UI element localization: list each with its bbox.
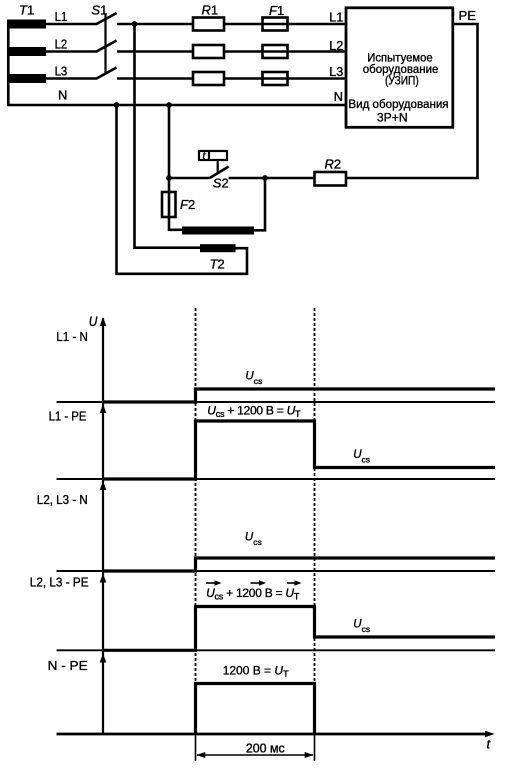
wire L2 from S1 to R1 (117, 50, 193, 53)
svg-text:S1: S1 (91, 2, 107, 17)
axis arrowhead row L1-PE (100, 404, 107, 413)
wire L3 from T1 to S1 (46, 77, 97, 80)
extension line t1 below axis (195, 734, 197, 762)
wire N down through F2 to T2 primary (169, 105, 182, 230)
trace L1-PE baseline (thin full width) (57, 478, 496, 480)
axis U (vertical) (102, 318, 104, 734)
trace L1-N baseline (thin full width) (57, 401, 496, 403)
trace L2,L3-PE baseline (thin full width) (57, 649, 496, 651)
dashed line t1 (195, 308, 197, 734)
wire T2 primary to S2 output node (254, 178, 265, 230)
wire L3 from R1 to EUT (through F1) (224, 77, 346, 80)
svg-text:L1 - PE: L1 - PE (49, 409, 87, 424)
dimension 200 ms line (197, 754, 313, 756)
wire T2 secondary left end up to L1 (135, 24, 201, 248)
vector arrow over UT (287, 580, 302, 585)
svg-text:L3: L3 (329, 64, 343, 79)
resistor R1 (L1 phase) (193, 18, 224, 31)
wire L1 from T1 to S1 (46, 23, 97, 26)
svg-text:Вид оборудования: Вид оборудования (348, 97, 448, 111)
svg-text:R2: R2 (325, 157, 342, 172)
vector arrow over 1200 (251, 580, 267, 585)
wire PE from EUT to R2 (346, 24, 478, 178)
svg-text:R1: R1 (202, 2, 219, 17)
svg-text:L2, L3 - PE: L2, L3 - PE (30, 574, 89, 589)
svg-text:L3: L3 (55, 63, 68, 78)
time-delay actuator t of S2 (199, 151, 227, 174)
transformer T1 (7, 20, 46, 106)
resistor R2 (315, 172, 347, 186)
node L1/T2 junction (132, 21, 138, 27)
dimension arrowhead left (196, 752, 205, 758)
resistor R1 (L3 phase) (193, 72, 224, 85)
fuse F1 (L1 phase) (263, 18, 288, 31)
svg-text:S2: S2 (213, 175, 229, 190)
svg-text:L1: L1 (55, 9, 68, 24)
svg-text:200 мс: 200 мс (246, 741, 285, 755)
wire L1 from S1 to R1 (117, 23, 193, 26)
svg-text:F1: F1 (269, 3, 284, 18)
transformer T2 secondary winding (200, 244, 236, 252)
svg-text:T2: T2 (210, 257, 225, 272)
axis t arrowhead (485, 731, 495, 738)
trace L2,L3-N baseline (thin full width) (57, 570, 496, 572)
svg-text:L1 - N: L1 - N (56, 329, 88, 344)
fuse F2 (162, 192, 176, 217)
axis t (horizontal) (57, 733, 490, 736)
axis U arrowhead top (100, 317, 107, 326)
axis arrowhead row L2,L3-PE (100, 574, 107, 583)
svg-text:3P+N: 3P+N (377, 110, 408, 124)
svg-text:1200 В = UT: 1200 В = UT (223, 663, 289, 679)
svg-text:U: U (89, 314, 98, 329)
wire L3 from S1 to R1 (117, 77, 193, 80)
vector arrow over Ucs (206, 580, 222, 585)
fuse F1 (L3 phase) (263, 72, 288, 85)
trace L2,L3-PE (thick) (103, 607, 495, 651)
svg-text:(УЗИП): (УЗИП) (385, 74, 419, 88)
trace N-PE pulse (thick) (196, 684, 315, 735)
node S2/F2 junction (166, 175, 172, 181)
trace L2,L3-N (thick) (103, 558, 495, 571)
dimension arrowhead right (305, 752, 314, 758)
fuse F1 (L2 phase) (263, 45, 288, 58)
node S2/T2 junction (262, 175, 268, 181)
trace L1-PE (thick) (103, 421, 495, 479)
switch S2 (timed contact) (169, 167, 229, 179)
node N/S2 branch junction (166, 102, 172, 108)
switch S1 (3-pole) (97, 13, 117, 79)
svg-text:N: N (334, 89, 343, 104)
svg-text:L1: L1 (329, 10, 343, 25)
node N junction to T2 secondary return (114, 102, 120, 108)
EUT box (УЗИП) (346, 8, 453, 128)
svg-text:F2: F2 (180, 197, 195, 212)
wire L2 from R1 to EUT (through F1) (224, 50, 346, 53)
svg-text:L2: L2 (55, 36, 68, 51)
svg-text:L2, L3 - N: L2, L3 - N (37, 492, 88, 507)
transformer T2 primary winding (182, 227, 254, 235)
axis arrowhead row N-PE (100, 654, 107, 663)
dashed line t2 (314, 308, 316, 734)
wire L2 from T1 to S1 (46, 50, 97, 53)
trace L1-N (thick) (103, 389, 495, 402)
extension line t2 below axis (314, 734, 316, 762)
svg-text:PE: PE (459, 8, 477, 23)
wire T2 secondary right end back to N (117, 105, 248, 274)
svg-text:T1: T1 (19, 2, 34, 17)
wire L1 from R1 to EUT (through F1) (224, 23, 346, 26)
wire R2 to S2 (229, 177, 315, 180)
svg-text:N: N (58, 87, 67, 102)
wire N from T1 to EUT box (7, 104, 346, 107)
svg-text:L2: L2 (329, 38, 343, 53)
resistor R1 (L2 phase) (193, 45, 224, 58)
svg-text:N - PE: N - PE (48, 658, 88, 673)
axis arrowhead row L2,L3-N (100, 481, 107, 490)
